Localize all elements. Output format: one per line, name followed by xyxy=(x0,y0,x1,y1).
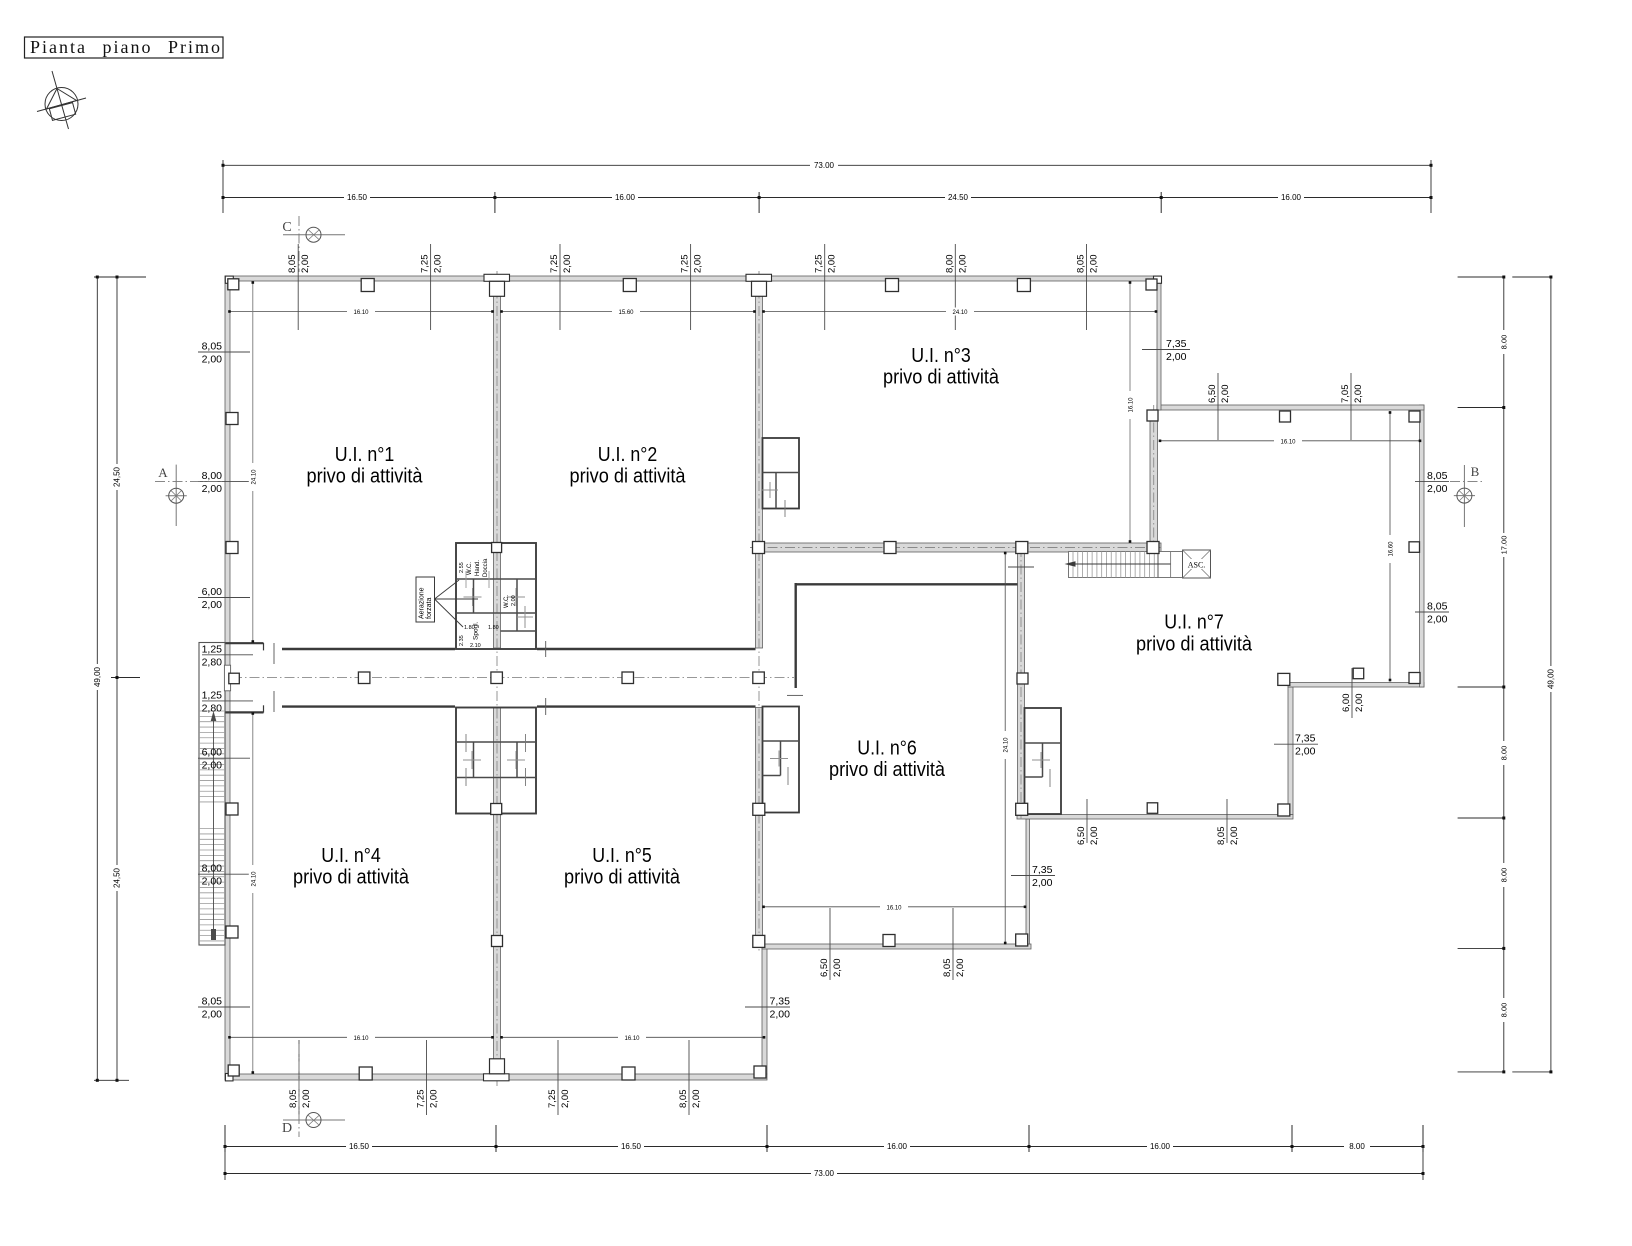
svg-text:2,00: 2,00 xyxy=(202,599,223,611)
svg-text:8.00: 8.00 xyxy=(1499,746,1508,761)
svg-text:2,00: 2,00 xyxy=(1353,385,1364,404)
svg-text:8.00: 8.00 xyxy=(1499,335,1508,350)
elevator ASC. xyxy=(1183,550,1211,578)
svg-text:U.I. n°5: U.I. n°5 xyxy=(592,845,652,867)
svg-text:2,00: 2,00 xyxy=(693,255,704,274)
svg-text:8,05: 8,05 xyxy=(287,255,298,274)
svg-text:8,00: 8,00 xyxy=(944,255,955,274)
exterior wall top xyxy=(225,276,1161,281)
svg-text:24,50: 24,50 xyxy=(113,867,122,888)
exterior wall left xyxy=(225,276,230,1080)
dimension chain right 8.00/17.00/8.00/8.00/8.00 xyxy=(1458,276,1509,1074)
svg-text:7,25: 7,25 xyxy=(547,1090,558,1109)
svg-text:6,00: 6,00 xyxy=(202,747,223,759)
svg-text:16.00: 16.00 xyxy=(887,1142,908,1151)
svg-text:16.10: 16.10 xyxy=(353,1036,369,1042)
structural wall grid A (U.I.1|U.I.2) upper xyxy=(494,281,501,648)
opening wall x1028 7,35 xyxy=(1011,875,1055,877)
interior dim 16.10 U.I.6 xyxy=(762,903,1026,912)
svg-text:16.10: 16.10 xyxy=(1280,439,1296,445)
dimension chain top 73.00 xyxy=(222,160,1433,213)
svg-text:U.I. n°7: U.I. n°7 xyxy=(1164,612,1224,634)
svg-text:49,00: 49,00 xyxy=(93,666,102,687)
dimension chain top segments 16.50 / 16.00 / 24.50 / 16.00 xyxy=(222,192,1433,213)
svg-text:8,00: 8,00 xyxy=(202,470,223,482)
columns right wing top wall xyxy=(1280,411,1291,422)
svg-text:Spogl.: Spogl. xyxy=(473,621,480,640)
svg-text:24,50: 24,50 xyxy=(113,466,122,487)
U.I.6 left partition wall xyxy=(795,583,797,688)
svg-text:2,00: 2,00 xyxy=(691,1090,702,1109)
svg-text:2,00: 2,00 xyxy=(955,959,966,978)
exterior wall top of right wing y=405 xyxy=(1157,405,1424,410)
section marker C xyxy=(282,216,345,272)
columns on corridor centerline xyxy=(358,672,370,684)
openings wall y814.5 xyxy=(1086,799,1088,843)
interior dim 15.60 U.I.2 xyxy=(500,308,756,317)
U.I.3 bottom wall centerline xyxy=(750,547,1161,549)
corridor small column left wall xyxy=(229,673,240,684)
svg-text:U.I. n°2: U.I. n°2 xyxy=(598,444,658,466)
opening U.I.3 right wall 7,35 xyxy=(1142,349,1190,351)
svg-text:2,00: 2,00 xyxy=(433,255,444,274)
svg-text:2,00: 2,00 xyxy=(1354,694,1365,713)
svg-text:16.60: 16.60 xyxy=(1389,541,1395,557)
structural wall grid D (U.I.6|U.I.7) x=1021 xyxy=(1018,552,1025,815)
svg-text:privo di attività: privo di attività xyxy=(307,466,424,488)
grid D centerline dash-dot xyxy=(1020,547,1022,820)
left wall door to stair landing xyxy=(224,665,230,691)
columns on top wall xyxy=(361,279,374,292)
svg-text:privo di attività: privo di attività xyxy=(1136,633,1253,655)
svg-text:forzata: forzata xyxy=(426,597,433,619)
grid B centerline dash-dot xyxy=(758,271,760,952)
column U.I.3 right wall xyxy=(1147,410,1158,421)
svg-text:16.10: 16.10 xyxy=(353,310,369,316)
openings bottom wall xyxy=(298,1040,300,1115)
svg-text:2,00: 2,00 xyxy=(562,255,573,274)
corridor centerline dash-dot xyxy=(232,677,794,679)
svg-text:1,25: 1,25 xyxy=(202,643,223,655)
svg-text:49,00: 49,00 xyxy=(1546,668,1555,689)
svg-text:8.00: 8.00 xyxy=(1499,868,1508,883)
corner column bottom-left xyxy=(225,1074,233,1081)
svg-text:2,00: 2,00 xyxy=(827,255,838,274)
columns right wing right wall xyxy=(1409,542,1420,553)
columns grid B mid xyxy=(753,803,765,815)
corner column top-right of U.I.3 xyxy=(1154,276,1162,283)
svg-text:2,00: 2,00 xyxy=(957,255,968,274)
svg-text:8,05: 8,05 xyxy=(678,1090,689,1109)
staircase left (external) xyxy=(199,643,225,946)
svg-text:24.10: 24.10 xyxy=(952,310,968,316)
svg-text:2,00: 2,00 xyxy=(300,255,311,274)
corridor lower wall xyxy=(225,705,756,712)
interior dim 24.10 U.I.3 xyxy=(762,308,1157,317)
structural wall grid A (U.I.4|U.I.5) lower xyxy=(494,708,501,1075)
U.I.6 top partition wall xyxy=(795,583,1018,585)
svg-text:8,05: 8,05 xyxy=(202,341,223,353)
interior dim 16.10 U.I.5 xyxy=(500,1033,765,1042)
svg-text:A: A xyxy=(158,465,168,480)
svg-text:6,00: 6,00 xyxy=(1341,694,1352,713)
svg-text:17.00: 17.00 xyxy=(1499,536,1508,555)
svg-text:1,25: 1,25 xyxy=(202,689,223,701)
svg-text:2,00: 2,00 xyxy=(1166,351,1187,363)
section marker D xyxy=(282,1044,345,1137)
exterior wall right of right wing x=1419.5 xyxy=(1420,405,1425,687)
columns on left wall xyxy=(226,413,238,425)
pier grid B top xyxy=(746,274,772,281)
corner column top-left xyxy=(225,276,233,283)
column grid D corridor level xyxy=(1017,673,1028,684)
WC block lower (between U.I.4 and U.I.5) xyxy=(456,708,536,814)
exterior wall bottom of U.I.4/U.I.5 block xyxy=(225,1074,767,1080)
svg-text:6,50: 6,50 xyxy=(1076,827,1087,846)
svg-text:1.80: 1.80 xyxy=(488,625,499,631)
svg-text:15.60: 15.60 xyxy=(618,310,634,316)
openings top wall: 8,05 7,25 7,25 7,25 7,25 8,00 8,05 xyxy=(297,244,299,330)
svg-text:7,35: 7,35 xyxy=(1295,733,1316,745)
svg-text:D: D xyxy=(282,1121,292,1136)
corner column bottom of grid B xyxy=(754,1066,766,1078)
svg-text:8,05: 8,05 xyxy=(1076,255,1087,274)
svg-text:16.10: 16.10 xyxy=(1129,397,1135,413)
exterior wall bottom of right wing y=682.5 xyxy=(1288,683,1424,688)
svg-text:2,00: 2,00 xyxy=(1229,827,1240,846)
svg-text:7,35: 7,35 xyxy=(1166,338,1187,350)
svg-text:16.50: 16.50 xyxy=(347,193,368,202)
svg-text:privo di attività: privo di attività xyxy=(883,366,1000,388)
structural wall grid B (U.I.5|U.I.6) lower xyxy=(756,708,763,945)
svg-text:2,00: 2,00 xyxy=(1089,255,1100,274)
columns on bottom wall xyxy=(359,1067,372,1080)
openings right wing top wall xyxy=(1217,373,1219,440)
svg-text:2,00: 2,00 xyxy=(1032,877,1053,889)
svg-text:2,00: 2,00 xyxy=(1295,746,1316,758)
svg-text:24.10: 24.10 xyxy=(251,871,257,887)
centerline of U.I.3/U.I.7 wall xyxy=(1153,405,1155,552)
svg-text:6,50: 6,50 xyxy=(1207,385,1218,404)
svg-text:7,25: 7,25 xyxy=(814,255,825,274)
svg-text:8,05: 8,05 xyxy=(942,959,953,978)
svg-text:W.C.: W.C. xyxy=(467,562,473,575)
svg-text:7,35: 7,35 xyxy=(770,996,791,1008)
interior dim 16.10 vertical U.I.3 xyxy=(1126,281,1135,543)
svg-text:8,00: 8,00 xyxy=(202,863,223,875)
svg-text:7,35: 7,35 xyxy=(1032,864,1053,876)
corridor door jamb ticks at WC block xyxy=(545,641,547,657)
svg-text:24.10: 24.10 xyxy=(1004,737,1010,753)
svg-text:2.55: 2.55 xyxy=(459,562,465,573)
svg-text:Aerazione: Aerazione xyxy=(419,587,426,619)
svg-text:privo di attività: privo di attività xyxy=(829,759,946,781)
interior dim 16.10 U.I.1 xyxy=(228,308,494,317)
corridor door jamb ticks at left door xyxy=(273,643,275,664)
columns wall y814.5 xyxy=(1147,803,1158,814)
svg-text:W.C.: W.C. xyxy=(504,595,510,608)
svg-text:U.I. n°1: U.I. n°1 xyxy=(335,444,395,466)
pier grid A top xyxy=(484,274,510,281)
svg-text:7,25: 7,25 xyxy=(420,255,431,274)
section marker B xyxy=(1450,464,1482,527)
svg-text:8,05: 8,05 xyxy=(202,996,223,1008)
grid A centerline dash-dot xyxy=(496,271,498,1088)
exterior wall right of U.I.3 x=1157 xyxy=(1157,276,1161,410)
columns right wing bottom wall xyxy=(1353,668,1364,679)
svg-text:privo di attività: privo di attività xyxy=(564,866,681,888)
pier grid A bottom xyxy=(484,1074,510,1081)
structural wall grid B (U.I.2|U.I.3) upper xyxy=(756,281,763,648)
svg-text:7,25: 7,25 xyxy=(680,255,691,274)
svg-text:2,00: 2,00 xyxy=(1427,614,1448,626)
interior dim 24.10 vertical U.I.6 xyxy=(1001,552,1010,945)
opening wall x762 lower 7,35 xyxy=(745,1006,790,1008)
dimension chain left 24,50 + 24,50 xyxy=(111,276,140,1082)
columns wall x1288 xyxy=(1278,804,1290,816)
svg-text:2,80: 2,80 xyxy=(202,656,223,668)
svg-text:U.I. n°3: U.I. n°3 xyxy=(911,345,971,367)
svg-text:16.50: 16.50 xyxy=(349,1142,370,1151)
svg-text:U.I. n°4: U.I. n°4 xyxy=(321,845,381,867)
svg-text:2,00: 2,00 xyxy=(202,483,223,495)
svg-text:2.35: 2.35 xyxy=(459,635,465,646)
dimension chain right 49,00 xyxy=(1512,276,1555,1074)
U.I.6 door opening tick in left partition xyxy=(787,694,803,696)
title box: Pianta piano Primo xyxy=(25,37,224,58)
section marker A xyxy=(155,465,225,526)
svg-text:2,00: 2,00 xyxy=(429,1090,440,1109)
svg-text:2,00: 2,00 xyxy=(770,1009,791,1021)
svg-text:2,00: 2,00 xyxy=(1220,385,1231,404)
opening grid D wall xyxy=(1008,566,1034,568)
columns U.I.6 bottom wall xyxy=(1016,934,1028,946)
svg-text:24.50: 24.50 xyxy=(948,193,969,202)
svg-text:8.00: 8.00 xyxy=(1349,1142,1365,1151)
dimension chain bottom 73.00 xyxy=(224,1169,1425,1178)
svg-text:Hand.: Hand. xyxy=(475,560,481,576)
interior dim 24.10 vertical U.I.1 xyxy=(249,281,257,643)
svg-text:C: C xyxy=(282,220,291,235)
svg-text:2,00: 2,00 xyxy=(202,760,223,772)
openings U.I.6 bottom wall xyxy=(829,908,831,980)
structural wall U.I.3 bottom (y=543-552) xyxy=(756,543,1162,552)
openings left wall xyxy=(198,351,250,353)
dimension chain bottom segments 16.50/16.50/16.00/16.00/8.00 xyxy=(224,1125,1425,1180)
svg-text:2.10: 2.10 xyxy=(470,643,481,649)
WC block of U.I.6 (attached right of grid B) xyxy=(763,707,800,813)
svg-text:Pianta piano Primo: Pianta piano Primo xyxy=(30,37,222,57)
svg-text:2,80: 2,80 xyxy=(202,702,223,714)
exterior wall vertical step x=1026 (y 819-944) xyxy=(1026,819,1030,944)
svg-text:16.00: 16.00 xyxy=(615,193,636,202)
Aerazione forzata label with leaders xyxy=(416,577,435,622)
interior dim 24.10 vertical U.I.4 xyxy=(249,712,257,1074)
svg-text:7,05: 7,05 xyxy=(1340,385,1351,404)
interior dim 16.10 U.I.4 xyxy=(228,1033,494,1042)
openings right wing right wall 8,05 / 8,05 xyxy=(1415,481,1449,483)
svg-text:2,00: 2,00 xyxy=(560,1090,571,1109)
svg-text:73.00: 73.00 xyxy=(814,1169,835,1178)
svg-text:16.00: 16.00 xyxy=(1150,1142,1171,1151)
svg-text:7,25: 7,25 xyxy=(416,1090,427,1109)
WC block upper (between U.I.1 and U.I.2) xyxy=(456,543,536,649)
opening right wing bottom wall xyxy=(1351,668,1353,718)
svg-text:2,00: 2,00 xyxy=(301,1090,312,1109)
svg-text:2,00: 2,00 xyxy=(202,354,223,366)
dimension chain left 49,00 xyxy=(93,276,146,1082)
svg-text:24.10: 24.10 xyxy=(251,469,257,485)
svg-text:8,05: 8,05 xyxy=(288,1090,299,1109)
svg-text:16.10: 16.10 xyxy=(886,905,902,911)
exterior wall right of U.I.5 block (x=762-767) xyxy=(762,947,767,1074)
svg-text:2,00: 2,00 xyxy=(832,959,843,978)
north arrow symbol xyxy=(37,71,86,129)
svg-text:privo di attività: privo di attività xyxy=(293,866,410,888)
svg-text:16.00: 16.00 xyxy=(1281,193,1302,202)
svg-text:8,05: 8,05 xyxy=(1427,470,1448,482)
columns on U.I.3 bottom wall xyxy=(753,542,765,554)
WC block of U.I.3 (attached to grid B wall) xyxy=(763,438,800,509)
svg-text:2,00: 2,00 xyxy=(202,876,223,888)
svg-text:2,00: 2,00 xyxy=(1427,483,1448,495)
columns grid A lower xyxy=(491,804,502,815)
exterior wall bottom of U.I.6 (y=944) xyxy=(762,944,1031,949)
opening wall x1288 7,35 xyxy=(1274,743,1318,745)
svg-text:16.50: 16.50 xyxy=(621,1142,642,1151)
structural wall U.I.3/U.I.7 x=1150-1157.5 (y 410-543) xyxy=(1150,410,1158,543)
svg-text:7,25: 7,25 xyxy=(549,255,560,274)
svg-text:privo di attività: privo di attività xyxy=(570,466,687,488)
svg-text:2.00: 2.00 xyxy=(511,595,517,606)
svg-text:8,05: 8,05 xyxy=(1216,827,1227,846)
svg-text:73.00: 73.00 xyxy=(814,161,835,170)
svg-text:8,05: 8,05 xyxy=(1427,601,1448,613)
svg-text:6,00: 6,00 xyxy=(202,586,223,598)
svg-text:16.10: 16.10 xyxy=(624,1036,640,1042)
corridor upper wall xyxy=(225,643,756,650)
staircase central (to U.I.7) with landing xyxy=(1065,552,1183,578)
svg-text:B: B xyxy=(1471,464,1480,479)
svg-text:8.00: 8.00 xyxy=(1499,1003,1508,1018)
svg-text:ASC.: ASC. xyxy=(1188,561,1206,570)
interior dim 16.60 vertical U.I.7 xyxy=(1386,411,1395,682)
exterior wall vertical x=1288 (y 687-814) xyxy=(1288,687,1293,815)
svg-text:2,00: 2,00 xyxy=(202,1009,223,1021)
svg-text:2,00: 2,00 xyxy=(1089,827,1100,846)
exterior wall horizontal y=814.5 (x 1017-1293) xyxy=(1017,815,1293,820)
interior dim 16.10 U.I.7 top xyxy=(1159,437,1422,446)
svg-text:6,50: 6,50 xyxy=(819,959,830,978)
svg-text:U.I. n°6: U.I. n°6 xyxy=(857,738,917,760)
WC block of U.I.7 (attached right of grid D) xyxy=(1025,708,1062,814)
svg-text:Doccia: Doccia xyxy=(483,558,489,577)
